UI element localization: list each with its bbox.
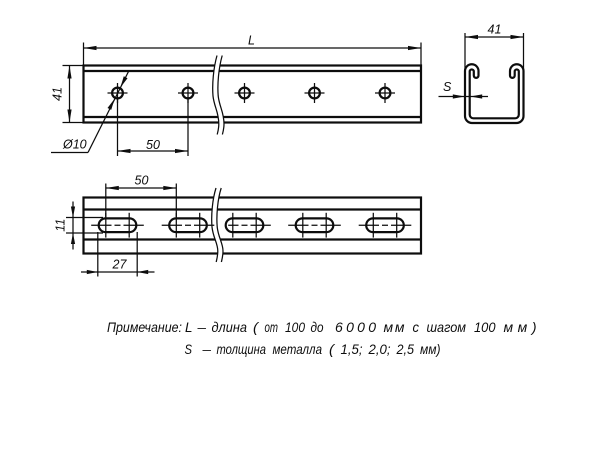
wire: inner fold line lower — [84, 116, 422, 118]
wire: inner fold line upper — [84, 70, 422, 72]
break line right (side view) — [217, 188, 223, 262]
wire: inner fold line lower (side) — [84, 238, 422, 240]
dimension 41 (top view height) — [51, 66, 85, 123]
dimension 11 (slot height) — [54, 202, 104, 250]
slot 2 (side view) — [162, 213, 215, 238]
wire: inner fold line upper (side) — [84, 208, 422, 210]
svg-text:27: 27 — [112, 258, 128, 272]
dimension S (wall thickness) — [439, 80, 489, 99]
hole 4 (top view) — [305, 83, 325, 103]
slot 5 (side view) — [359, 213, 412, 238]
dimension 50 (side view) — [106, 174, 177, 218]
break gap mask (side view) — [212, 188, 223, 262]
dimension 41 (section) — [465, 23, 524, 71]
top view: strut channel face, bar body — [84, 66, 422, 123]
svg-text:50: 50 — [146, 138, 160, 152]
dimension L — [84, 34, 422, 66]
svg-text:S–толщинаметалла(1,5;2,0;2,5мм: S–толщинаметалла(1,5;2,0;2,5мм) — [185, 341, 441, 357]
break line right (top view) — [218, 56, 224, 135]
hole 3 (top view) — [235, 83, 255, 103]
dimension 27 (slot length) — [81, 232, 155, 277]
hole 2 (top view) — [178, 83, 198, 103]
svg-text:L: L — [248, 34, 255, 48]
svg-text:41: 41 — [488, 23, 502, 37]
svg-text:50: 50 — [135, 174, 149, 188]
svg-text:41: 41 — [51, 87, 65, 101]
slot 1 (side view) — [91, 213, 144, 238]
svg-text:Ø10: Ø10 — [62, 138, 87, 152]
side view: bar body — [84, 198, 422, 254]
dimension 50 (top view) — [118, 99, 189, 156]
break line left (top view) — [213, 56, 219, 135]
slot 4 (side view) — [288, 213, 341, 238]
svg-text:S: S — [443, 80, 452, 94]
break line left (side view) — [212, 188, 218, 262]
break gap mask (top view) — [213, 56, 224, 135]
svg-text:11: 11 — [54, 219, 68, 232]
hole 5 (top view) — [375, 83, 395, 103]
hole 1 (top view) — [108, 83, 128, 103]
section view: C-profile — [465, 64, 524, 123]
dimension Ø10 leader — [51, 72, 129, 153]
slot 3 (side view) — [226, 213, 271, 238]
